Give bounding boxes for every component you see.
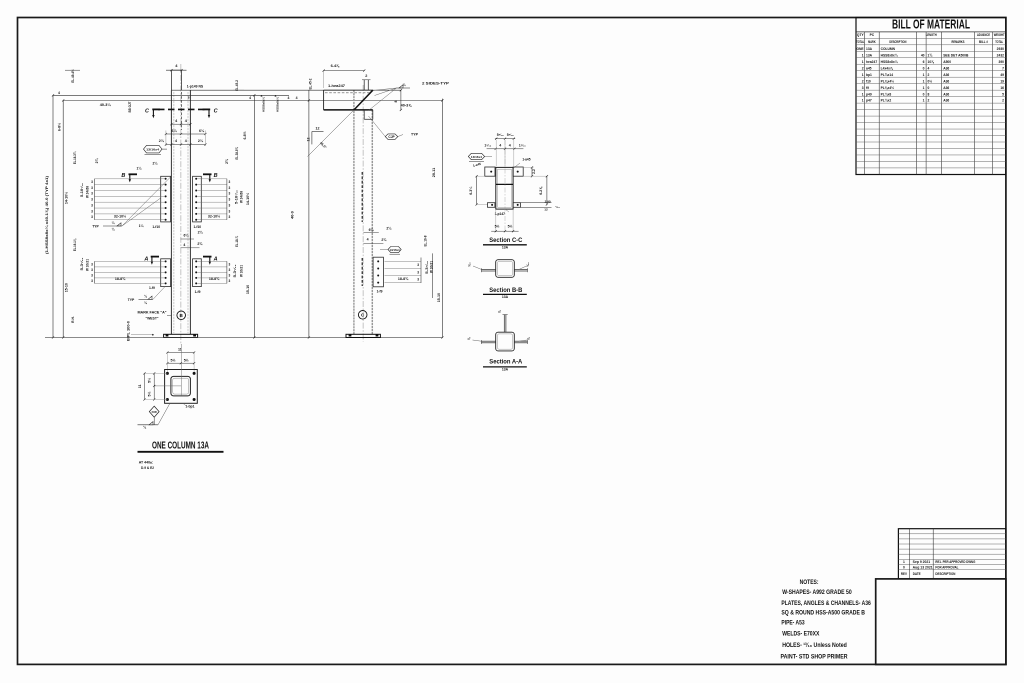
bottom dims 5 1/2 bbox=[495, 209, 497, 232]
middle elevation column bbox=[353, 90, 355, 334]
svg-text:3: 3 bbox=[229, 262, 231, 266]
svg-text:HSS8x8x¼: HSS8x8x¼ bbox=[881, 53, 898, 57]
svg-text:HSS8x8x¼: HSS8x8x¼ bbox=[276, 97, 280, 112]
svg-text:WEIGHT: WEIGHT bbox=[994, 33, 1005, 37]
svg-text:1-p149 NS: 1-p149 NS bbox=[187, 85, 204, 89]
svg-text:12: 12 bbox=[306, 138, 310, 142]
svg-text:TOTAL: TOTAL bbox=[995, 40, 1003, 44]
svg-text:⅛: ⅛ bbox=[467, 337, 471, 340]
svg-text:W 16x31: W 16x31 bbox=[430, 261, 434, 273]
svg-text:REV: REV bbox=[901, 572, 908, 576]
svg-text:3: 3 bbox=[229, 209, 231, 213]
svg-text:WELDS- E70XX: WELDS- E70XX bbox=[782, 630, 820, 637]
svg-text:1: 1 bbox=[862, 92, 864, 96]
svg-text:3: 3 bbox=[91, 198, 93, 202]
svg-text:BILL OF MATERIAL: BILL OF MATERIAL bbox=[892, 18, 970, 32]
svg-text:PL¼x8: PL¼x8 bbox=[881, 92, 892, 96]
svg-text:B: B bbox=[121, 173, 125, 179]
svg-text:EL.16-1⅛: EL.16-1⅛ bbox=[73, 239, 77, 252]
svg-text:390: 390 bbox=[998, 60, 1004, 64]
svg-text:EL.45-2: EL.45-2 bbox=[235, 80, 239, 91]
base plate mid elevation bbox=[346, 334, 380, 337]
svg-text:A36: A36 bbox=[943, 66, 949, 70]
svg-text:W 24x68: W 24x68 bbox=[86, 186, 90, 198]
svg-text:PL⅜x4½: PL⅜x4½ bbox=[881, 86, 895, 90]
svg-text:16: 16 bbox=[1000, 86, 1004, 90]
svg-text:6-2⅞: 6-2⅞ bbox=[539, 186, 543, 195]
bracket diagonal bbox=[354, 90, 373, 110]
svg-text:p47: p47 bbox=[866, 99, 872, 103]
svg-text:(1-HSS8x8x¼ x40-1⅞) 40-0 (TYP: (1-HSS8x8x¼ x40-1⅞) 40-0 (TYP 4x1) bbox=[44, 175, 49, 254]
slope diagonal bbox=[308, 110, 355, 157]
svg-text:1: 1 bbox=[923, 79, 925, 83]
svg-text:bp1: bp1 bbox=[866, 73, 872, 77]
dim 6-2 7/8 right bbox=[546, 176, 548, 204]
svg-text:5-10⁷⁄₁₆: 5-10⁷⁄₁₆ bbox=[234, 189, 238, 204]
svg-text:PL¾x14: PL¾x14 bbox=[881, 73, 894, 77]
svg-text:1⁹⁄₁₆: 1⁹⁄₁₆ bbox=[484, 144, 491, 148]
slope triangle 12/12 bbox=[312, 131, 324, 133]
svg-text:4: 4 bbox=[288, 96, 290, 100]
svg-text:0: 0 bbox=[923, 66, 925, 70]
svg-text:5½: 5½ bbox=[148, 378, 152, 383]
svg-text:Sep 9 2021: Sep 9 2021 bbox=[913, 560, 931, 564]
svg-text:0: 0 bbox=[928, 86, 930, 90]
svg-text:15-10: 15-10 bbox=[246, 285, 250, 294]
dim 6-4 7/8 bbox=[324, 70, 365, 72]
svg-text:1: 1 bbox=[862, 53, 864, 57]
svg-text:1: 1 bbox=[923, 99, 925, 103]
svg-text:14-10½: 14-10½ bbox=[64, 192, 68, 204]
bill of material table bbox=[856, 18, 1006, 175]
plate f9 mid view bbox=[373, 257, 383, 287]
dim 2-2 bbox=[531, 167, 533, 176]
svg-text:DESCRIPTION: DESCRIPTION bbox=[935, 572, 956, 576]
svg-text:TOTAL: TOTAL bbox=[856, 40, 864, 44]
svg-text:p49: p49 bbox=[866, 92, 872, 96]
svg-text:18-8¾: 18-8¾ bbox=[398, 277, 409, 281]
svg-text:¼: ¼ bbox=[144, 301, 147, 305]
hidden plate edge dashes bbox=[361, 172, 363, 222]
svg-text:W 24x68: W 24x68 bbox=[239, 191, 243, 203]
svg-text:14-10½: 14-10½ bbox=[246, 193, 250, 205]
svg-text:NOTES:: NOTES: bbox=[800, 579, 819, 586]
svg-text:SQ & ROUND HSS-A500 GRADE B: SQ & ROUND HSS-A500 GRADE B bbox=[781, 610, 865, 617]
svg-text:0: 0 bbox=[903, 565, 905, 569]
svg-text:HSS8x8x¼: HSS8x8x¼ bbox=[262, 97, 266, 112]
base plate left elevation bbox=[164, 334, 198, 337]
svg-text:1-f10: 1-f10 bbox=[152, 225, 160, 229]
svg-text:1: 1 bbox=[923, 73, 925, 77]
svg-text:6-8½: 6-8½ bbox=[58, 123, 62, 131]
svg-text:D.9 & E2: D.9 & E2 bbox=[141, 466, 154, 470]
svg-text:40-9: 40-9 bbox=[291, 211, 295, 219]
svg-text:3: 3 bbox=[91, 180, 93, 184]
svg-text:12: 12 bbox=[544, 208, 548, 212]
Section C-C detail bbox=[495, 138, 515, 140]
svg-text:10⅞: 10⅞ bbox=[928, 60, 935, 64]
svg-text:5½: 5½ bbox=[495, 225, 500, 229]
svg-text:3: 3 bbox=[229, 273, 231, 277]
svg-text:4: 4 bbox=[296, 96, 298, 100]
svg-text:1⁹⁄₁₆: 1⁹⁄₁₆ bbox=[519, 144, 526, 148]
anchor bolts bbox=[166, 372, 169, 375]
dims below C cut bbox=[171, 123, 190, 125]
svg-text:8: 8 bbox=[261, 94, 263, 98]
svg-text:1-f10: 1-f10 bbox=[193, 225, 201, 229]
svg-text:f10: f10 bbox=[866, 79, 871, 83]
svg-text:DESCRIPTION: DESCRIPTION bbox=[889, 40, 906, 44]
svg-text:8: 8 bbox=[928, 92, 930, 96]
svg-text:L4x4x⅞: L4x4x⅞ bbox=[881, 66, 893, 70]
svg-text:3: 3 bbox=[229, 203, 231, 207]
svg-text:5½: 5½ bbox=[171, 358, 176, 362]
svg-text:W 16x31: W 16x31 bbox=[86, 259, 90, 271]
dim 6-3 1/4 left bbox=[476, 176, 478, 204]
svg-text:Aug 13 2021: Aug 13 2021 bbox=[913, 565, 933, 569]
svg-text:¼: ¼ bbox=[144, 294, 147, 298]
svg-text:3: 3 bbox=[862, 86, 864, 90]
plate above bracket bbox=[363, 80, 365, 90]
plate f9 left bbox=[161, 259, 171, 287]
HSS tube in plan bbox=[171, 376, 191, 396]
svg-text:6-3¼: 6-3¼ bbox=[469, 186, 473, 195]
svg-text:EL.45-2: EL.45-2 bbox=[309, 78, 313, 89]
plate f10 right bbox=[193, 176, 202, 222]
svg-text:ADVANCE: ADVANCE bbox=[977, 33, 991, 37]
svg-text:REMARKS: REMARKS bbox=[952, 40, 966, 44]
svg-text:3: 3 bbox=[229, 198, 231, 202]
svg-text:40-3⅞: 40-3⅞ bbox=[401, 103, 413, 107]
svg-text:0½: 0½ bbox=[928, 79, 933, 83]
svg-text:³⁄₁₆: ³⁄₁₆ bbox=[526, 262, 530, 267]
svg-text:A500: A500 bbox=[943, 60, 951, 64]
dim 4 top plate bbox=[166, 69, 187, 71]
right chain mid view bbox=[441, 99, 443, 338]
bolt rows lower group bbox=[165, 260, 167, 262]
svg-text:PL⅜x4½: PL⅜x4½ bbox=[881, 79, 895, 83]
svg-text:A36: A36 bbox=[943, 86, 949, 90]
svg-text:A36: A36 bbox=[943, 79, 949, 83]
svg-text:5: 5 bbox=[1002, 92, 1004, 96]
svg-text:12: 12 bbox=[316, 126, 320, 130]
mark bubble left bbox=[177, 311, 186, 320]
svg-text:3: 3 bbox=[91, 186, 93, 190]
svg-text:1-f9: 1-f9 bbox=[149, 286, 155, 290]
svg-text:5-3⁷⁄₁₆: 5-3⁷⁄₁₆ bbox=[80, 257, 84, 271]
svg-text:4: 4 bbox=[175, 139, 177, 143]
svg-text:8: 8 bbox=[394, 100, 398, 102]
Section B-B detail bbox=[496, 260, 515, 278]
svg-text:4: 4 bbox=[183, 243, 185, 247]
svg-text:3: 3 bbox=[91, 268, 93, 272]
svg-text:"WEST": "WEST" bbox=[145, 316, 158, 320]
svg-text:1-hea247: 1-hea247 bbox=[328, 84, 345, 88]
plate f9 right bbox=[193, 259, 202, 287]
svg-text:⁷⁄₁₆: ⁷⁄₁₆ bbox=[555, 205, 560, 209]
svg-text:2930: 2930 bbox=[997, 47, 1005, 51]
svg-text:3: 3 bbox=[229, 268, 231, 272]
svg-text:1: 1 bbox=[903, 560, 905, 564]
svg-text:13/16x4: 13/16x4 bbox=[390, 248, 401, 252]
bottom angles C-C bbox=[488, 203, 495, 208]
svg-text:Section C-C: Section C-C bbox=[489, 237, 522, 244]
svg-text:6: 6 bbox=[923, 60, 925, 64]
left chain mid view bbox=[308, 90, 310, 337]
left dims plan bbox=[153, 373, 155, 399]
plate f10 left bbox=[161, 176, 171, 222]
svg-text:f9: f9 bbox=[866, 86, 869, 90]
svg-text:4: 4 bbox=[928, 66, 930, 70]
svg-text:EL.18-¾: EL.18-¾ bbox=[235, 236, 239, 247]
svg-text:ONE COLUMN 13A: ONE COLUMN 13A bbox=[152, 439, 209, 451]
svg-text:5-10⁷⁄₁₆: 5-10⁷⁄₁₆ bbox=[80, 182, 84, 197]
svg-text:5-3⁷⁄₁₆: 5-3⁷⁄₁₆ bbox=[425, 260, 429, 274]
svg-text:MARK FACE "A": MARK FACE "A" bbox=[138, 311, 167, 315]
svg-text:R.H.: R.H. bbox=[71, 316, 75, 323]
svg-text:COLUMN: COLUMN bbox=[881, 47, 896, 51]
svg-text:2-2: 2-2 bbox=[532, 169, 536, 174]
svg-text:2.90: 2.90 bbox=[545, 199, 551, 203]
svg-text:2: 2 bbox=[928, 99, 930, 103]
svg-text:6-8½: 6-8½ bbox=[243, 131, 247, 139]
left chain vertical lines bbox=[52, 95, 54, 337]
svg-text:13A: 13A bbox=[866, 47, 873, 51]
svg-text:13/16x4: 13/16x4 bbox=[471, 155, 483, 159]
svg-text:A36: A36 bbox=[943, 99, 949, 103]
svg-text:1-f9: 1-f9 bbox=[195, 290, 201, 294]
svg-text:LENGTH: LENGTH bbox=[926, 33, 937, 37]
revision table bbox=[898, 529, 1006, 579]
svg-text:1-bp1: 1-bp1 bbox=[185, 404, 194, 408]
svg-text:3: 3 bbox=[229, 279, 231, 283]
svg-text:3: 3 bbox=[91, 215, 93, 219]
hexagon flag C-C bbox=[468, 153, 484, 159]
field weld diamond bbox=[149, 406, 159, 417]
svg-text:3: 3 bbox=[417, 277, 419, 281]
svg-text:3: 3 bbox=[91, 273, 93, 277]
svg-text:32-10½: 32-10½ bbox=[208, 214, 220, 218]
svg-text:3: 3 bbox=[229, 186, 231, 190]
svg-text:8: 8 bbox=[275, 94, 277, 98]
svg-text:⅛: ⅛ bbox=[498, 310, 502, 313]
svg-text:1: 1 bbox=[862, 99, 864, 103]
svg-text:13A: 13A bbox=[502, 246, 509, 250]
svg-text:8: 8 bbox=[188, 96, 190, 100]
svg-text:5-3⁷⁄₁₆: 5-3⁷⁄₁₆ bbox=[233, 264, 237, 278]
svg-text:BILL #: BILL # bbox=[979, 40, 988, 44]
svg-text:2: 2 bbox=[862, 66, 864, 70]
wire bbox=[170, 90, 172, 334]
svg-text:F/W: F/W bbox=[152, 410, 157, 414]
svg-text:EL.38-5¾: EL.38-5¾ bbox=[235, 147, 239, 160]
svg-text:19: 19 bbox=[1000, 79, 1004, 83]
title block bbox=[876, 579, 1006, 665]
svg-text:3: 3 bbox=[91, 192, 93, 196]
svg-text:3: 3 bbox=[91, 203, 93, 207]
svg-text:BB OJT: BB OJT bbox=[128, 102, 132, 113]
svg-text:18-8¾: 18-8¾ bbox=[209, 277, 220, 281]
elevation line EL bbox=[53, 94, 289, 96]
svg-text:CJP: CJP bbox=[388, 135, 395, 139]
svg-text:2 SIDES-TYP: 2 SIDES-TYP bbox=[422, 82, 450, 86]
svg-text:PIPE- A53: PIPE- A53 bbox=[781, 620, 804, 627]
svg-text:7: 7 bbox=[1002, 66, 1004, 70]
svg-text:2: 2 bbox=[1002, 99, 1004, 103]
svg-text:4: 4 bbox=[58, 91, 60, 95]
svg-text:11: 11 bbox=[138, 384, 142, 388]
plate p149 top bbox=[170, 70, 172, 90]
svg-text:40: 40 bbox=[921, 53, 925, 57]
plate p47 below bracket bbox=[363, 110, 365, 119]
svg-text:4: 4 bbox=[185, 139, 187, 143]
svg-text:1: 1 bbox=[862, 60, 864, 64]
svg-text:Section A-A: Section A-A bbox=[489, 358, 522, 365]
svg-text:13A: 13A bbox=[866, 53, 873, 57]
svg-text:13A: 13A bbox=[502, 368, 509, 372]
svg-text:0: 0 bbox=[923, 92, 925, 96]
svg-text:5⁹⁄₁₆: 5⁹⁄₁₆ bbox=[507, 133, 514, 137]
svg-text:49: 49 bbox=[1000, 73, 1004, 77]
centerline left column bbox=[180, 64, 182, 345]
svg-text:2: 2 bbox=[862, 79, 864, 83]
svg-text:MARK: MARK bbox=[868, 40, 876, 44]
svg-text:1-f9: 1-f9 bbox=[377, 290, 383, 294]
svg-text:5½: 5½ bbox=[148, 392, 152, 397]
bracket hea247 bbox=[324, 89, 373, 91]
svg-text:5½: 5½ bbox=[184, 358, 189, 362]
svg-text:FOR APPROVAL: FOR APPROVAL bbox=[935, 565, 958, 569]
svg-text:HSS8x8x¼: HSS8x8x¼ bbox=[881, 60, 898, 64]
svg-text:1: 1 bbox=[923, 86, 925, 90]
svg-text:PAINT- STD SHOP PRIMER: PAINT- STD SHOP PRIMER bbox=[781, 654, 848, 661]
svg-text:RE1. PER APPROVED DWNG: RE1. PER APPROVED DWNG bbox=[935, 560, 975, 564]
svg-text:ONE: ONE bbox=[856, 47, 864, 51]
svg-text:2: 2 bbox=[365, 74, 367, 78]
Section A-A detail bbox=[496, 332, 515, 351]
svg-text:3: 3 bbox=[417, 263, 419, 267]
svg-text:W-SHAPES- A992 GRADE 50: W-SHAPES- A992 GRADE 50 bbox=[782, 589, 852, 596]
right chain dims of left view bbox=[253, 95, 255, 337]
svg-text:13/16x4: 13/16x4 bbox=[146, 148, 160, 152]
svg-text:QTY: QTY bbox=[857, 33, 865, 37]
svg-text:TYP: TYP bbox=[92, 225, 99, 229]
svg-text:B/PL 100-0: B/PL 100-0 bbox=[127, 321, 131, 341]
svg-text:1: 1 bbox=[862, 73, 864, 77]
svg-text:EL.16-8: EL.16-8 bbox=[424, 235, 428, 246]
svg-text:¼: ¼ bbox=[112, 228, 115, 232]
svg-text:4: 4 bbox=[499, 144, 501, 148]
svg-text:1-p147: 1-p147 bbox=[495, 212, 506, 216]
hexagon flag plate mark bbox=[144, 145, 163, 153]
svg-text:a45: a45 bbox=[866, 66, 872, 70]
svg-text:A36: A36 bbox=[943, 92, 949, 96]
svg-text:6-4⅞: 6-4⅞ bbox=[331, 64, 340, 68]
svg-text:AT 440±:: AT 440±: bbox=[139, 460, 154, 464]
svg-text:3: 3 bbox=[229, 215, 231, 219]
svg-text:PC: PC bbox=[870, 33, 875, 37]
svg-text:TYP: TYP bbox=[411, 133, 419, 137]
svg-text:EL.18-3¾: EL.18-3¾ bbox=[73, 152, 77, 165]
svg-text:20-11: 20-11 bbox=[432, 168, 436, 178]
svg-text:SEE DET A500B: SEE DET A500B bbox=[943, 53, 969, 57]
svg-text:hea247: hea247 bbox=[866, 60, 877, 64]
svg-text:2432: 2432 bbox=[997, 53, 1005, 57]
svg-text:B: B bbox=[214, 173, 218, 179]
weld flag 2 sides bbox=[397, 87, 411, 89]
svg-text:3: 3 bbox=[91, 279, 93, 283]
svg-text:1¾: 1¾ bbox=[928, 53, 933, 57]
svg-text:PL¼x2: PL¼x2 bbox=[881, 99, 892, 103]
svg-text:⅛: ⅛ bbox=[527, 337, 531, 340]
svg-text:HOLES- ¹³⁄₁₆ Unless Noted: HOLES- ¹³⁄₁₆ Unless Noted bbox=[782, 642, 847, 649]
tube section C-C bbox=[496, 167, 513, 209]
top of column line bbox=[171, 89, 401, 91]
svg-text:TYP: TYP bbox=[128, 298, 135, 302]
dim 8 right bbox=[400, 90, 402, 110]
svg-text:³⁄₁₆: ³⁄₁₆ bbox=[467, 262, 471, 267]
svg-text:18-8¾: 18-8¾ bbox=[115, 277, 126, 281]
plate bp1 outline bbox=[165, 370, 198, 404]
svg-text:4: 4 bbox=[249, 96, 251, 100]
base line bbox=[45, 337, 442, 339]
svg-text:EL.49-4½: EL.49-4½ bbox=[71, 69, 75, 83]
svg-text:15-10: 15-10 bbox=[437, 293, 441, 302]
svg-text:13A: 13A bbox=[502, 295, 509, 299]
CJP flag bbox=[385, 134, 398, 140]
svg-text:1-a45: 1-a45 bbox=[522, 158, 530, 162]
svg-text:5⁹⁄₁₆: 5⁹⁄₁₆ bbox=[497, 133, 504, 137]
svg-text:3: 3 bbox=[229, 180, 231, 184]
svg-text:32-10½: 32-10½ bbox=[114, 214, 126, 218]
svg-text:A36: A36 bbox=[943, 73, 949, 77]
bolt rows upper group bbox=[165, 178, 167, 180]
svg-text:DATE: DATE bbox=[913, 572, 922, 576]
svg-text:5½: 5½ bbox=[508, 225, 513, 229]
mark bubble mid bbox=[358, 311, 367, 320]
svg-text:4: 4 bbox=[509, 144, 511, 148]
svg-text:3: 3 bbox=[91, 209, 93, 213]
svg-text:2: 2 bbox=[928, 73, 930, 77]
svg-text:3: 3 bbox=[229, 192, 231, 196]
svg-text:1¼: 1¼ bbox=[139, 224, 144, 228]
svg-text:Section B-B: Section B-B bbox=[489, 287, 522, 294]
centerline middle column bbox=[362, 85, 364, 342]
a45 angles top bbox=[485, 167, 495, 176]
svg-text:3: 3 bbox=[91, 262, 93, 266]
svg-text:¼: ¼ bbox=[112, 221, 115, 225]
svg-text:W 16x31: W 16x31 bbox=[239, 265, 243, 277]
center cross bbox=[154, 385, 181, 387]
svg-text:40-3¼: 40-3¼ bbox=[100, 103, 112, 107]
svg-text:PLATES, ANGLES & CHANNELS- A36: PLATES, ANGLES & CHANNELS- A36 bbox=[781, 600, 871, 607]
svg-text:4: 4 bbox=[367, 238, 369, 242]
hexagon flag mid bbox=[388, 247, 401, 253]
svg-text:3: 3 bbox=[417, 270, 419, 274]
svg-text:15-10: 15-10 bbox=[64, 283, 68, 292]
